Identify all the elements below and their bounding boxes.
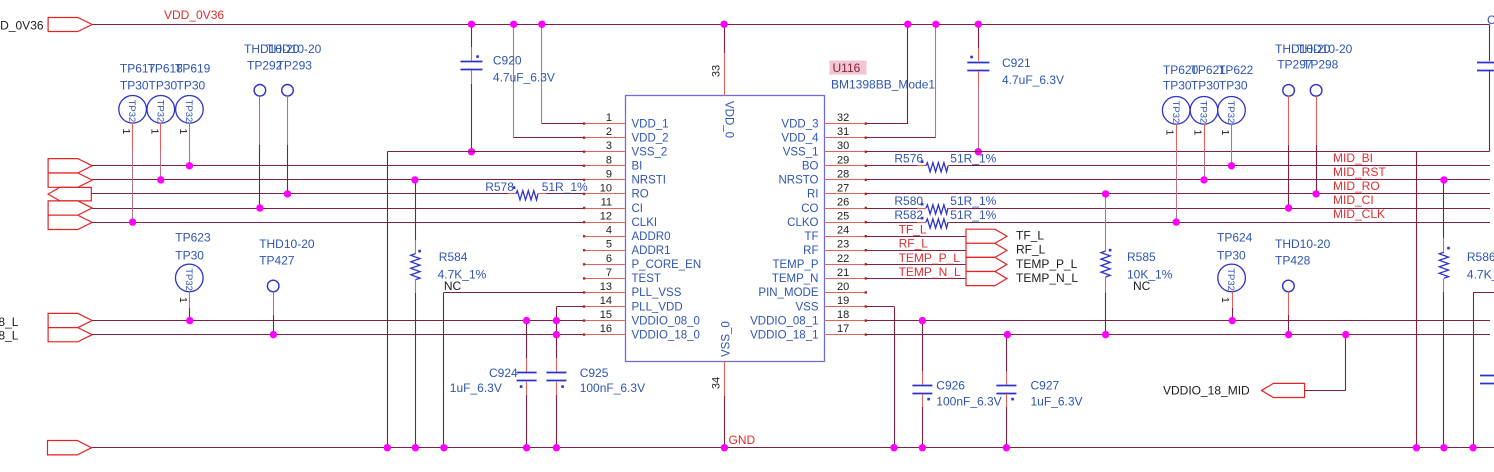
wire TP624: [1232, 291, 1234, 320]
junction TP621: [1200, 176, 1207, 183]
svg-text:1uF_6.3V: 1uF_6.3V: [1031, 395, 1083, 409]
junction PLL_VDD row16: [553, 331, 560, 338]
svg-text:4.7K_1%: 4.7K_1%: [1467, 268, 1494, 282]
svg-text:NRSTI: NRSTI: [632, 175, 667, 187]
svg-text:VDD_0: VDD_0: [723, 101, 735, 138]
wire C921 lower: [978, 71, 980, 152]
svg-text:TEMP_P_L: TEMP_P_L: [899, 251, 961, 265]
R576 leads: [917, 165, 957, 167]
svg-text:51R_1%: 51R_1%: [950, 152, 996, 166]
wire C924 upper: [526, 321, 528, 372]
C921 polarity dot: [970, 56, 973, 59]
svg-text:100nF_6.3V: 100nF_6.3V: [580, 381, 645, 395]
junction R585 RI: [1102, 190, 1109, 197]
svg-text:28: 28: [837, 168, 849, 180]
label TP298: [1303, 58, 1339, 72]
svg-text:TP30: TP30: [1217, 248, 1246, 262]
wire CLKO left: [867, 222, 925, 224]
svg-text:10: 10: [600, 182, 612, 194]
C927 polarity dot: [1011, 398, 1014, 401]
R584 pin1 dot: [418, 250, 421, 253]
svg-text:1: 1: [177, 297, 189, 303]
svg-text:TP30: TP30: [1191, 79, 1220, 93]
pin name CO: [801, 203, 818, 215]
svg-text:33: 33: [711, 65, 723, 77]
wire GND rail: [92, 447, 1494, 449]
label TP30 f: [1219, 79, 1248, 93]
label THD10-20 right a: [1275, 42, 1331, 56]
R582 pin1 dot: [921, 217, 924, 220]
wire pin34 to GND: [724, 396, 726, 448]
svg-text:VDDIO_18_L: VDDIO_18_L: [0, 329, 19, 343]
pin number 9: [606, 168, 612, 180]
svg-text:R576: R576: [894, 152, 923, 166]
junction VDD_1 on rail: [538, 21, 545, 28]
svg-text:C926: C926: [936, 379, 965, 393]
svg-text:22: 22: [837, 253, 849, 265]
R578 leads: [508, 193, 546, 195]
wire VDDIO_18 row: [92, 334, 584, 336]
wire CLKO right / MID_CLK: [950, 222, 1491, 224]
wire CLKI: [92, 222, 584, 224]
testpoint circle TP617: [119, 96, 147, 124]
wire PLL_VSS vertical: [443, 292, 445, 447]
junction C924 row15: [523, 317, 530, 324]
junction TP427: [270, 331, 277, 338]
black label VDDIO_08_L (clipped): [0, 315, 19, 329]
port connector VDDIO_18_L: [48, 328, 92, 342]
pin 3 VSS_2 stub: [583, 151, 626, 153]
svg-text:1: 1: [120, 129, 132, 135]
label TP30 a: [120, 79, 149, 93]
svg-text:TP32: TP32: [1225, 268, 1236, 291]
port connector VDDIO_18_MID: [1262, 383, 1305, 397]
label TP292: [247, 59, 283, 73]
TP32 text TP620: [1170, 101, 1181, 124]
pin name BO: [802, 161, 819, 173]
label TP617: [120, 62, 156, 76]
svg-text:20: 20: [837, 281, 849, 293]
pin number 25: [837, 211, 849, 223]
port connector RO (left-pointing): [48, 187, 91, 201]
value 51R_1% R578: [542, 180, 588, 194]
junction C921 VSS_1: [975, 148, 982, 155]
label TP623: [175, 231, 211, 245]
pin number 17: [837, 323, 849, 335]
port connector CI: [48, 201, 92, 215]
value 4.7K R586 (clipped): [1467, 268, 1494, 282]
wire VDD_4 horizontal: [867, 137, 936, 139]
junction C926 GND: [919, 444, 926, 451]
net label RF_L red: [899, 237, 929, 251]
net label GND: [729, 433, 756, 447]
capacitor C924: [517, 373, 537, 381]
label R584: [439, 250, 468, 264]
junction PLL_VDD row15: [553, 317, 560, 324]
pin number 2: [606, 126, 612, 138]
svg-text:VSS_1: VSS_1: [783, 147, 819, 159]
TP32 text TP621: [1198, 101, 1209, 124]
pin number 32: [837, 112, 849, 124]
junction C926 top: [919, 317, 926, 324]
junction pin33 rail: [720, 21, 727, 28]
capacitor C920: [461, 62, 483, 70]
svg-text:TP30: TP30: [175, 248, 204, 262]
testpoint circle TP620: [1162, 97, 1190, 125]
label THD10-20 TP428: [1275, 237, 1331, 251]
net label MID_RO: [1333, 179, 1380, 193]
wire edge cap top vertical: [1489, 24, 1491, 61]
wire C927 lower: [1006, 394, 1008, 448]
label R578: [485, 180, 514, 194]
junction VDD_2 on rail: [510, 21, 517, 28]
wire pin33 to rail: [724, 24, 726, 53]
pin number 18: [837, 309, 849, 321]
svg-text:MID_RO: MID_RO: [1333, 179, 1380, 193]
label R582: [894, 208, 923, 222]
pin1 label TP620: [1164, 130, 1176, 136]
pin 24 TF stub: [824, 235, 867, 237]
junction C924 GND: [523, 444, 530, 451]
pin name VDD_3: [781, 118, 818, 130]
svg-text:MID_CI: MID_CI: [1333, 193, 1374, 207]
pin 20 PIN_MODE stub: [824, 291, 867, 293]
pin number 15: [600, 309, 612, 321]
pin 14 PLL_VDD stub: [583, 305, 626, 307]
wire TP622: [1231, 124, 1233, 166]
pin number 24: [837, 225, 849, 237]
svg-text:1: 1: [1219, 297, 1231, 303]
pin number 3: [606, 140, 612, 152]
wire edge cap lower: [1489, 71, 1491, 152]
junction R584 NRSTI: [411, 176, 418, 183]
label NC R584: [444, 279, 462, 293]
label TP30 TP623: [175, 248, 204, 262]
svg-text:VDD_1: VDD_1: [632, 118, 669, 130]
wire VDD_4 vertical: [935, 24, 937, 137]
value 51R_1% R576: [950, 152, 996, 166]
svg-text:THD10-20: THD10-20: [1297, 42, 1353, 56]
svg-text:TP298: TP298: [1303, 58, 1339, 72]
pin 7 TEST stub: [583, 277, 626, 279]
pin name RI: [807, 189, 819, 201]
R580 pin1 dot: [921, 203, 924, 206]
pin 10 RO stub: [583, 193, 626, 195]
svg-text:2: 2: [606, 126, 612, 138]
label TP30 b: [149, 79, 178, 93]
svg-text:TP427: TP427: [259, 253, 295, 267]
junction TP293: [284, 190, 291, 197]
testpoint circle TP622: [1218, 97, 1246, 125]
pin 29 BO stub: [824, 165, 867, 167]
net label TF_L red: [899, 223, 927, 237]
svg-text:THD10-20: THD10-20: [259, 237, 315, 251]
svg-text:R584: R584: [439, 250, 468, 264]
label THD10-20 TP427: [259, 237, 315, 251]
wire BO left: [867, 165, 925, 167]
svg-text:TP623: TP623: [175, 231, 211, 245]
pin number 26: [837, 197, 849, 209]
svg-text:16: 16: [600, 323, 612, 335]
TP32 text TP622: [1225, 101, 1236, 124]
svg-text:51R_1%: 51R_1%: [950, 194, 996, 208]
port connector VDDIO_08_L: [48, 313, 92, 327]
testpoint circle TP623: [176, 264, 204, 292]
pin name NRSTO: [778, 175, 818, 187]
svg-text:100nF_6.3V: 100nF_6.3V: [936, 395, 1001, 409]
svg-text:C924: C924: [489, 366, 518, 380]
label C926: [936, 379, 965, 393]
svg-text:3: 3: [606, 140, 612, 152]
wire VDDIO_18_1: [867, 334, 1491, 336]
pin name PLL_VDD: [632, 301, 683, 313]
resistor R578: [516, 191, 538, 200]
svg-text:THD10-20: THD10-20: [1275, 237, 1331, 251]
IC U116 body: [626, 96, 825, 362]
pin name VSS_1: [783, 147, 819, 159]
pin number 31: [837, 126, 849, 138]
pin name RO: [632, 189, 649, 201]
pin 28 NRSTO stub: [824, 179, 867, 181]
label C921: [1002, 56, 1031, 70]
pin name NRSTI: [632, 175, 667, 187]
pin name VSS_2: [632, 147, 668, 159]
pin number 27: [837, 182, 849, 194]
TP32 text TP623: [183, 268, 194, 291]
wire PLL_VDD vertical: [556, 307, 558, 372]
pin number 30: [837, 140, 849, 152]
pin number 5: [606, 239, 612, 251]
label TP428: [1275, 253, 1311, 267]
value 100nF_6.3V C926: [936, 395, 1001, 409]
wire C920 lower: [471, 71, 473, 152]
wire R585 upper: [1105, 194, 1107, 251]
black label VDDIO_18_L (clipped): [0, 329, 19, 343]
R576 pin1 dot: [921, 160, 924, 163]
pin 26 CO stub: [824, 207, 867, 209]
wire RI / MID_RO: [867, 193, 1491, 195]
wire right edge vertical: [1473, 293, 1475, 448]
wire RF_L: [867, 250, 967, 252]
pin 32 VDD_3 stub: [824, 122, 867, 124]
label R576: [894, 152, 923, 166]
wire PLL_VDD horizontal: [556, 306, 583, 308]
svg-text:1: 1: [177, 129, 189, 135]
wire VDD_3 horizontal: [867, 123, 908, 125]
wire VDD_2 horizontal: [514, 137, 584, 139]
svg-text:34: 34: [711, 377, 723, 389]
resistor R580: [926, 205, 948, 214]
pin number 19: [837, 295, 849, 307]
pin 9 NRSTI stub: [583, 179, 626, 181]
pin number 1: [606, 112, 612, 124]
svg-text:CI: CI: [632, 203, 644, 215]
pin name PLL_VSS: [632, 287, 682, 299]
svg-text:19: 19: [837, 295, 849, 307]
port connector RF_L: [966, 243, 1007, 257]
label TP618: [148, 62, 184, 76]
TP32 text TP617: [126, 100, 137, 123]
svg-text:1: 1: [1219, 130, 1231, 136]
svg-text:TP32: TP32: [154, 100, 165, 123]
label THD10-20 left a: [244, 42, 300, 56]
wire TP618: [160, 123, 162, 180]
pin name CLKO: [787, 217, 818, 229]
junction VDD_4 rail: [932, 21, 939, 28]
wire C926 upper: [922, 321, 924, 385]
junction TP298: [1312, 190, 1319, 197]
svg-text:30: 30: [837, 140, 849, 152]
wire C926 lower: [922, 394, 924, 448]
pin name VDDIO_08_0: [632, 315, 700, 327]
svg-text:THD10-20: THD10-20: [266, 42, 322, 56]
C920 polarity dot: [476, 55, 479, 58]
pin number 20: [837, 281, 849, 293]
svg-text:TEMP_N: TEMP_N: [772, 273, 819, 285]
svg-text:7: 7: [606, 267, 612, 279]
svg-text:GND: GND: [729, 433, 756, 447]
net label TEMP_N_L red: [899, 265, 961, 279]
svg-text:17: 17: [837, 323, 849, 335]
svg-text:TP32: TP32: [1170, 101, 1181, 124]
svg-text:TEMP_N_L: TEMP_N_L: [899, 265, 961, 279]
wire RO (right of R578): [538, 193, 584, 195]
wire TP298: [1316, 96, 1318, 194]
wire TF_L: [867, 236, 967, 238]
junction C920 on VSS_2: [468, 148, 475, 155]
capacitor edge top (clipped): [1477, 63, 1494, 71]
C924 polarity dot: [520, 385, 523, 388]
TP32 text TP618: [154, 100, 165, 123]
label TP427: [259, 253, 295, 267]
testpoint circle TP624: [1218, 264, 1246, 292]
testpoint circle TP427: [267, 280, 279, 292]
testpoint circle TP298: [1310, 85, 1322, 97]
svg-text:C927: C927: [1031, 379, 1060, 393]
resistor R576: [926, 163, 948, 172]
label C920: [493, 54, 522, 68]
junction R585 bottom: [1102, 331, 1109, 338]
pin 34 VSS_0 stub: [724, 362, 726, 397]
pin 18 VDDIO_08_1 stub: [824, 319, 867, 321]
pin name TEMP_P: [772, 259, 818, 271]
pin 4 ADDR0 stub: [583, 235, 626, 237]
svg-text:9: 9: [606, 168, 612, 180]
junction VDD_3 rail: [904, 21, 911, 28]
value 1uF_6.3V C927: [1031, 395, 1083, 409]
power connector VDD_0V36: [48, 18, 92, 32]
svg-text:R582: R582: [894, 208, 923, 222]
port connector TF_L: [966, 229, 1007, 243]
pin name VDDIO_18_1: [750, 329, 818, 341]
svg-text:R580: R580: [894, 194, 923, 208]
label TP624: [1217, 231, 1253, 245]
capacitor C927: [996, 386, 1016, 394]
wire TP292: [259, 96, 261, 208]
black label VDDIO_18_MID: [1163, 384, 1250, 398]
svg-text:1: 1: [1164, 130, 1176, 136]
wire TP428: [1288, 292, 1290, 335]
pin name VDD_0 (rotated): [723, 101, 735, 138]
svg-text:BM1398BB_Mode1: BM1398BB_Mode1: [831, 78, 935, 92]
label TP619: [175, 62, 211, 76]
pin number 10: [600, 182, 612, 194]
pin name VDDIO_18_0: [632, 329, 700, 341]
svg-text:MID_RST: MID_RST: [1333, 165, 1386, 179]
svg-text:RI: RI: [807, 189, 819, 201]
pin 31 VDD_4 stub: [824, 137, 867, 139]
wire NRSTO / MID_RST: [867, 179, 1491, 181]
pin number 14: [600, 295, 612, 307]
junction VSS GND: [890, 444, 897, 451]
pin1 label TP624: [1219, 297, 1231, 303]
resistor R586: [1439, 252, 1448, 278]
pin 23 RF stub: [824, 249, 867, 251]
pin name VDD_2: [632, 133, 669, 145]
pin 15 VDDIO_08_0 stub: [583, 319, 626, 321]
wire C927 upper: [1006, 335, 1008, 385]
black label TF_L: [1016, 229, 1044, 243]
wire TEMP_P_L: [867, 264, 967, 266]
port connector CLKI: [48, 215, 92, 229]
pin number 8: [606, 154, 612, 166]
junction C921 rail: [975, 21, 982, 28]
wire TP293: [287, 96, 289, 194]
label TP293: [277, 59, 313, 73]
wire BI: [92, 165, 584, 167]
svg-text:1: 1: [148, 129, 160, 135]
svg-text:21: 21: [837, 267, 849, 279]
pin number 28: [837, 168, 849, 180]
pin number 7: [606, 267, 612, 279]
net label TEMP_P_L red: [899, 251, 961, 265]
R586 pin1 dot: [1447, 247, 1450, 250]
pin 16 VDDIO_18_0 stub: [583, 333, 626, 335]
pin 11 CI stub: [583, 207, 626, 209]
label TP30 e: [1191, 79, 1220, 93]
pin number 34: [711, 377, 723, 389]
wire TP620: [1176, 124, 1178, 222]
wire VSS_2 horizontal: [387, 151, 584, 153]
pin name VDD_1: [632, 118, 669, 130]
svg-text:VDD_0V36: VDD_0V36: [164, 8, 224, 22]
pin number 4: [606, 225, 612, 237]
label C927: [1031, 379, 1060, 393]
svg-text:VSS: VSS: [795, 301, 818, 313]
testpoint circle TP293: [282, 85, 294, 97]
svg-text:TF_L: TF_L: [1016, 229, 1044, 243]
wire PLL_VSS horizontal: [444, 292, 584, 294]
wire VDD_1 horizontal: [542, 123, 584, 125]
wire VSS pin19 vertical: [894, 307, 896, 448]
junction TP624: [1229, 317, 1236, 324]
svg-text:CO: CO: [801, 203, 818, 215]
svg-text:13: 13: [600, 281, 612, 293]
label R586: [1467, 250, 1494, 264]
junction VDDIO_18_MID: [1342, 331, 1349, 338]
net label MID_RST: [1333, 165, 1386, 179]
svg-text:TEMP_P_L: TEMP_P_L: [1016, 257, 1078, 271]
svg-text:31: 31: [837, 126, 849, 138]
wire TP617: [132, 123, 134, 222]
svg-text:4: 4: [606, 225, 612, 237]
svg-text:TP30: TP30: [1163, 79, 1192, 93]
C925 polarity dot: [561, 385, 564, 388]
label C924: [489, 366, 518, 380]
svg-text:29: 29: [837, 154, 849, 166]
C926 polarity dot: [927, 398, 930, 401]
svg-text:BO: BO: [802, 161, 819, 173]
